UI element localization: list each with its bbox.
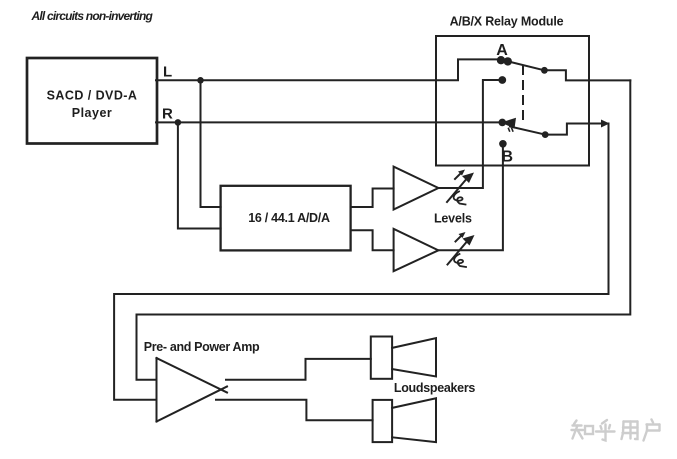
wire amp1 output to relay contact (upper switch lower throw) bbox=[438, 80, 499, 188]
svg-text:R: R bbox=[162, 106, 173, 123]
svg-text:A/B/X Relay Module: A/B/X Relay Module bbox=[450, 15, 564, 29]
switch 2 blade with arrow bbox=[510, 127, 545, 135]
wire A/D/A top output to buffer amp 1 bbox=[351, 189, 394, 208]
node switch2 pole bbox=[542, 131, 549, 138]
node contact A (double dot) bbox=[497, 56, 505, 64]
char yong bbox=[622, 422, 638, 440]
svg-text:Loudspeakers: Loudspeakers bbox=[394, 381, 476, 395]
wire amp2 output to relay contact B bbox=[438, 144, 503, 250]
buffer amp 2 (bottom level amp) bbox=[394, 229, 439, 271]
watermark zhihu user bbox=[572, 420, 660, 441]
loudspeaker 1 driver bbox=[371, 337, 392, 379]
buffer amp 1 (top level amp) bbox=[394, 167, 439, 210]
char hu2 bbox=[644, 420, 660, 441]
svg-text:16 / 44.1 A/D/A: 16 / 44.1 A/D/A bbox=[248, 211, 330, 225]
svg-text:L: L bbox=[163, 64, 172, 81]
char zhi bbox=[572, 421, 594, 439]
power amp triangle (crossed tip) bbox=[156, 358, 158, 422]
wire power amp output to top loudspeaker bbox=[226, 359, 371, 380]
node switch2 upper contact bbox=[499, 119, 507, 127]
wire R branch down to A/D/A input bbox=[178, 122, 221, 228]
wire L branch down to A/D/A input bbox=[201, 80, 221, 207]
switch 1 blade bbox=[511, 62, 545, 70]
loudspeaker 2 horn bbox=[392, 398, 436, 442]
wire L from player to relay contact A bbox=[156, 59, 498, 80]
svg-text:Player: Player bbox=[72, 106, 113, 120]
svg-text:Pre- and Power Amp: Pre- and Power Amp bbox=[144, 340, 260, 354]
char hu bbox=[596, 420, 615, 441]
wire switch2 pole out to right with arrowhead bbox=[545, 124, 603, 135]
mechanical link (dashed) bbox=[522, 66, 524, 122]
wire relay output 1 down right side to power amp upper input bbox=[137, 80, 631, 379]
A/B/X Relay Module box bbox=[436, 36, 589, 166]
svg-text:Levels: Levels bbox=[434, 211, 472, 225]
svg-text:SACD / DVD-A: SACD / DVD-A bbox=[47, 89, 138, 103]
node junction L bbox=[197, 77, 204, 84]
SACD / DVD-A Player box bbox=[27, 58, 157, 144]
wire A/D/A bottom output to buffer amp 2 bbox=[351, 230, 394, 250]
level pot symbol 1 (adjust arrow) bbox=[447, 170, 474, 205]
node junction R bbox=[175, 119, 182, 126]
wire power amp output to bottom loudspeaker bbox=[216, 400, 373, 421]
svg-text:B: B bbox=[502, 149, 514, 166]
wire relay output 2 down right side to power amp lower input bbox=[114, 124, 608, 400]
node contact B bbox=[499, 140, 507, 148]
16 / 44.1 A/D/A converter box bbox=[221, 186, 351, 251]
node contact X upper (from amp1) bbox=[498, 76, 506, 84]
loudspeaker 2 driver bbox=[373, 400, 393, 442]
node switch1 pole bbox=[541, 67, 548, 74]
loudspeaker 1 horn bbox=[392, 338, 436, 376]
level pot symbol 2 (adjust arrow) bbox=[448, 232, 475, 267]
wire switch1 pole out to right bbox=[544, 70, 630, 80]
wire R from player to relay lower contact bbox=[156, 121, 499, 123]
svg-text:All circuits non-inverting: All circuits non-inverting bbox=[31, 9, 154, 23]
